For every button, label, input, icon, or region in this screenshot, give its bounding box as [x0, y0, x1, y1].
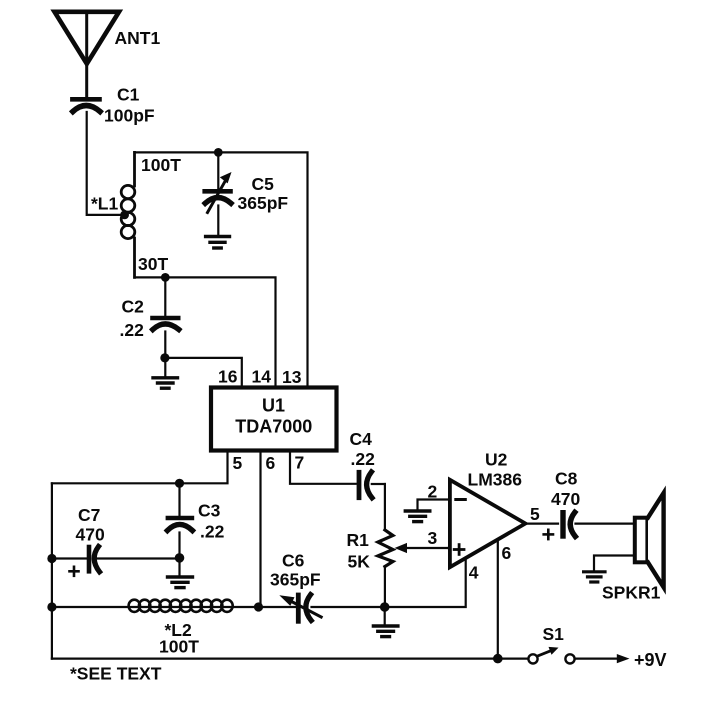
pin 6 wire of U2 [497, 540, 499, 659]
ground below C2 [153, 358, 178, 388]
pin 5 wire of U2 [525, 522, 558, 524]
svg-text:3: 3 [428, 528, 438, 548]
node R1 bottom junction [380, 602, 390, 612]
label C8 value [551, 469, 580, 510]
variable capacitor C5 [205, 152, 232, 234]
node C3 bottom junction [175, 553, 185, 563]
svg-text:C7: C7 [78, 505, 100, 525]
svg-text:7: 7 [295, 453, 305, 473]
svg-text:100pF: 100pF [104, 106, 155, 126]
ground at pin 2 [405, 511, 430, 522]
left vertical rail [51, 483, 53, 658]
capacitor C1 [72, 99, 100, 111]
pin 7 wire [290, 451, 356, 484]
C8 plus sign [544, 530, 553, 539]
svg-text:.22: .22 [120, 320, 145, 340]
svg-text:C6: C6 [282, 551, 305, 571]
capacitor C8 [563, 512, 634, 536]
svg-text:TDA7000: TDA7000 [235, 417, 312, 437]
ground at speaker [584, 572, 605, 582]
svg-text:C2: C2 [122, 297, 145, 317]
node top rail / C5 junction [214, 148, 223, 157]
svg-text:365pF: 365pF [270, 570, 321, 590]
IC U1 TDA7000 [211, 388, 337, 451]
ground below R1 [373, 607, 398, 637]
wire top rail 100T to pin 13 [135, 152, 308, 387]
node pin6/rail junction [493, 654, 503, 664]
label C1 value [104, 85, 155, 126]
svg-text:U2: U2 [485, 450, 508, 470]
svg-text:13: 13 [282, 367, 302, 387]
svg-text:5: 5 [233, 453, 243, 473]
label C2 value [120, 297, 145, 341]
capacitor C4 [359, 472, 385, 498]
pin 3 wire [449, 547, 450, 549]
svg-text:470: 470 [76, 525, 105, 545]
svg-text:2: 2 [428, 482, 438, 502]
inductor L1 [121, 152, 135, 277]
pin 6 wire [259, 451, 261, 607]
svg-text:14: 14 [252, 367, 272, 387]
C7 plus sign [70, 567, 79, 576]
svg-text:LM386: LM386 [468, 470, 523, 490]
svg-text:470: 470 [551, 489, 580, 509]
label C3 value [198, 501, 225, 542]
svg-text:30T: 30T [138, 254, 168, 274]
svg-text:6: 6 [502, 543, 512, 563]
label C7 value [76, 505, 105, 545]
antenna ANT1 [55, 12, 120, 96]
svg-text:C1: C1 [117, 85, 140, 105]
node C2 bottom junction [160, 353, 169, 362]
label C5 value [238, 174, 289, 213]
speaker SPKR1 [635, 493, 664, 587]
node L1 tap junction [120, 211, 129, 220]
svg-text:*L1: *L1 [91, 194, 119, 214]
label R1 value [347, 530, 371, 572]
svg-text:+9V: +9V [634, 650, 667, 670]
svg-text:6: 6 [266, 453, 276, 473]
svg-text:C4: C4 [350, 429, 373, 449]
ground below C3 [168, 558, 193, 588]
label U2 LM386 [468, 450, 523, 490]
wire pin4 of U2 [385, 558, 466, 607]
node C7 junction [47, 554, 56, 563]
wire switch to +9V [575, 657, 618, 659]
inductor L2 [52, 600, 259, 612]
svg-text:5: 5 [530, 504, 540, 524]
node L2 junction [47, 602, 56, 611]
svg-text:100T: 100T [141, 155, 181, 175]
switch S1 [528, 647, 574, 664]
wire C2 junction to pin 16 [165, 358, 242, 388]
wire speaker to ground [594, 556, 635, 571]
pin 2 wire [418, 500, 450, 510]
svg-text:R1: R1 [347, 530, 370, 550]
svg-text:C8: C8 [555, 469, 578, 489]
capacitor C7 [52, 547, 180, 572]
ground below C5 [206, 237, 230, 249]
bottom supply rail [52, 657, 528, 659]
svg-text:SPKR1: SPKR1 [602, 583, 661, 603]
svg-text:100T: 100T [159, 637, 199, 657]
variable capacitor C6 [259, 595, 385, 622]
node pin5/C3 junction [175, 479, 184, 488]
pin 5 wire [52, 451, 228, 484]
svg-text:C3: C3 [198, 501, 221, 521]
node 30T / C2 junction [161, 273, 170, 282]
svg-text:4: 4 [469, 563, 479, 583]
op-amp U2 LM386 [450, 480, 526, 567]
svg-text:365pF: 365pF [238, 193, 289, 213]
svg-text:S1: S1 [543, 624, 565, 644]
svg-text:.22: .22 [351, 449, 376, 469]
potentiometer R1 [378, 484, 449, 607]
node L2 / pin6 junction [254, 602, 263, 611]
svg-text:.22: .22 [200, 522, 225, 542]
capacitor C2 [153, 277, 179, 358]
label C6 value [270, 551, 321, 590]
wire 30T tap to pin 14 [135, 277, 276, 387]
svg-text:C5: C5 [252, 174, 275, 194]
label C4 value [350, 429, 376, 469]
arrow to +9V [617, 654, 630, 663]
svg-text:*SEE TEXT: *SEE TEXT [70, 664, 162, 684]
svg-text:ANT1: ANT1 [115, 28, 161, 48]
capacitor C3 [167, 483, 192, 557]
label L2 [159, 620, 199, 657]
wire antenna to L1 tap [87, 112, 124, 215]
svg-text:16: 16 [218, 367, 238, 387]
svg-text:U1: U1 [262, 396, 285, 416]
svg-text:5K: 5K [348, 552, 371, 572]
